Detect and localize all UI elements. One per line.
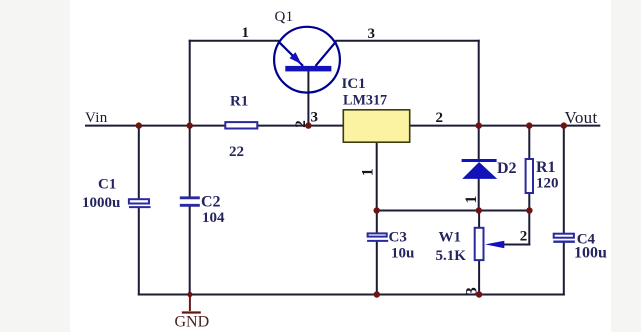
svg-text:100u: 100u [574,245,607,262]
wire W1 bottom [478,261,480,294]
svg-text:10u: 10u [391,246,414,262]
wire R1 120 upper [528,126,530,159]
capacitor C2 [180,198,200,205]
svg-text:LM317: LM317 [343,93,387,109]
junction dot gnd-GND [187,292,192,297]
resistor R1 22 [225,122,257,128]
wire C4 lower [563,243,565,295]
svg-text:1000u: 1000u [82,195,120,211]
junction dot Vout-R1 [526,122,532,128]
svg-text:5.1K: 5.1K [436,248,467,264]
svg-text:3: 3 [311,110,319,126]
potentiometer W1 [475,228,505,260]
svg-text:22: 22 [229,144,244,160]
junction dot Vin-C2 [187,122,193,128]
svg-text:D2: D2 [497,160,517,177]
wire emitter top-left horizontal [190,40,279,42]
wire D2 upper [478,126,480,160]
svg-text:3: 3 [368,26,376,42]
svg-text:1: 1 [242,25,250,41]
svg-text:R1: R1 [536,159,556,176]
junction dot Vin-C1 [136,122,142,128]
wire emitter top-left vertical [189,41,191,126]
wire D2 lower [478,179,480,211]
wire Vout horizontal [410,125,599,127]
svg-text:IC1: IC1 [342,76,366,92]
transistor Q1 [274,27,340,93]
wire collector top-right horizontal [336,40,479,42]
svg-text:C1: C1 [98,177,116,193]
wire C1 branch lower [138,208,140,295]
wire C2 branch upper [189,126,191,197]
wire Vin horizontal [86,125,343,127]
wire W1 wiper horizontal [503,244,529,246]
svg-text:104: 104 [202,210,225,226]
capacitor C4 [553,234,575,242]
junction dot adj-pin1 [374,207,380,213]
resistor R1 120 [526,159,533,193]
wire base vertical [307,71,309,125]
junction dot Vin-base [305,122,311,128]
wire LM317 pin1 vertical [376,143,378,211]
capacitor C1 [129,199,151,207]
wire ground bus horizontal [139,294,564,296]
capacitor C3 [367,233,388,240]
wire collector top-right vertical [478,41,480,126]
wire R1 120 lower [528,194,530,211]
svg-text:1: 1 [360,168,377,176]
wire C2 branch lower [189,207,191,295]
wire adj node horizontal [377,210,530,212]
wire W1 wiper vertical [528,211,530,245]
svg-text:2: 2 [436,110,444,126]
svg-text:W1: W1 [439,230,462,246]
svg-text:GND: GND [175,314,210,331]
svg-text:1: 1 [463,196,480,204]
svg-text:C2: C2 [201,194,221,211]
wire W1 top [478,211,480,227]
svg-text:120: 120 [536,176,559,192]
wire C4 upper [563,126,565,233]
svg-text:Vin: Vin [85,110,108,126]
junction dot gnd-C3 [374,291,380,297]
junction dot adj-D2-W1 [476,207,482,213]
svg-text:Vout: Vout [565,108,598,127]
junction dot adj-R1-wiper [526,207,532,213]
junction dot Vout-C4 [561,122,567,128]
junction dot Vout-collector-D2 [476,122,482,128]
svg-text:2: 2 [520,228,528,244]
svg-text:Q1: Q1 [275,9,294,25]
op-amp regulator IC1 LM317 [343,110,409,142]
ground symbol [182,295,201,313]
svg-text:R1: R1 [230,93,248,109]
diode D2 [462,161,498,179]
junction dot gnd-W1 [476,291,482,297]
wire C1 branch upper [138,126,140,199]
wire C3 upper [376,211,378,233]
wire C3 lower [376,242,378,295]
svg-text:C3: C3 [389,230,407,246]
